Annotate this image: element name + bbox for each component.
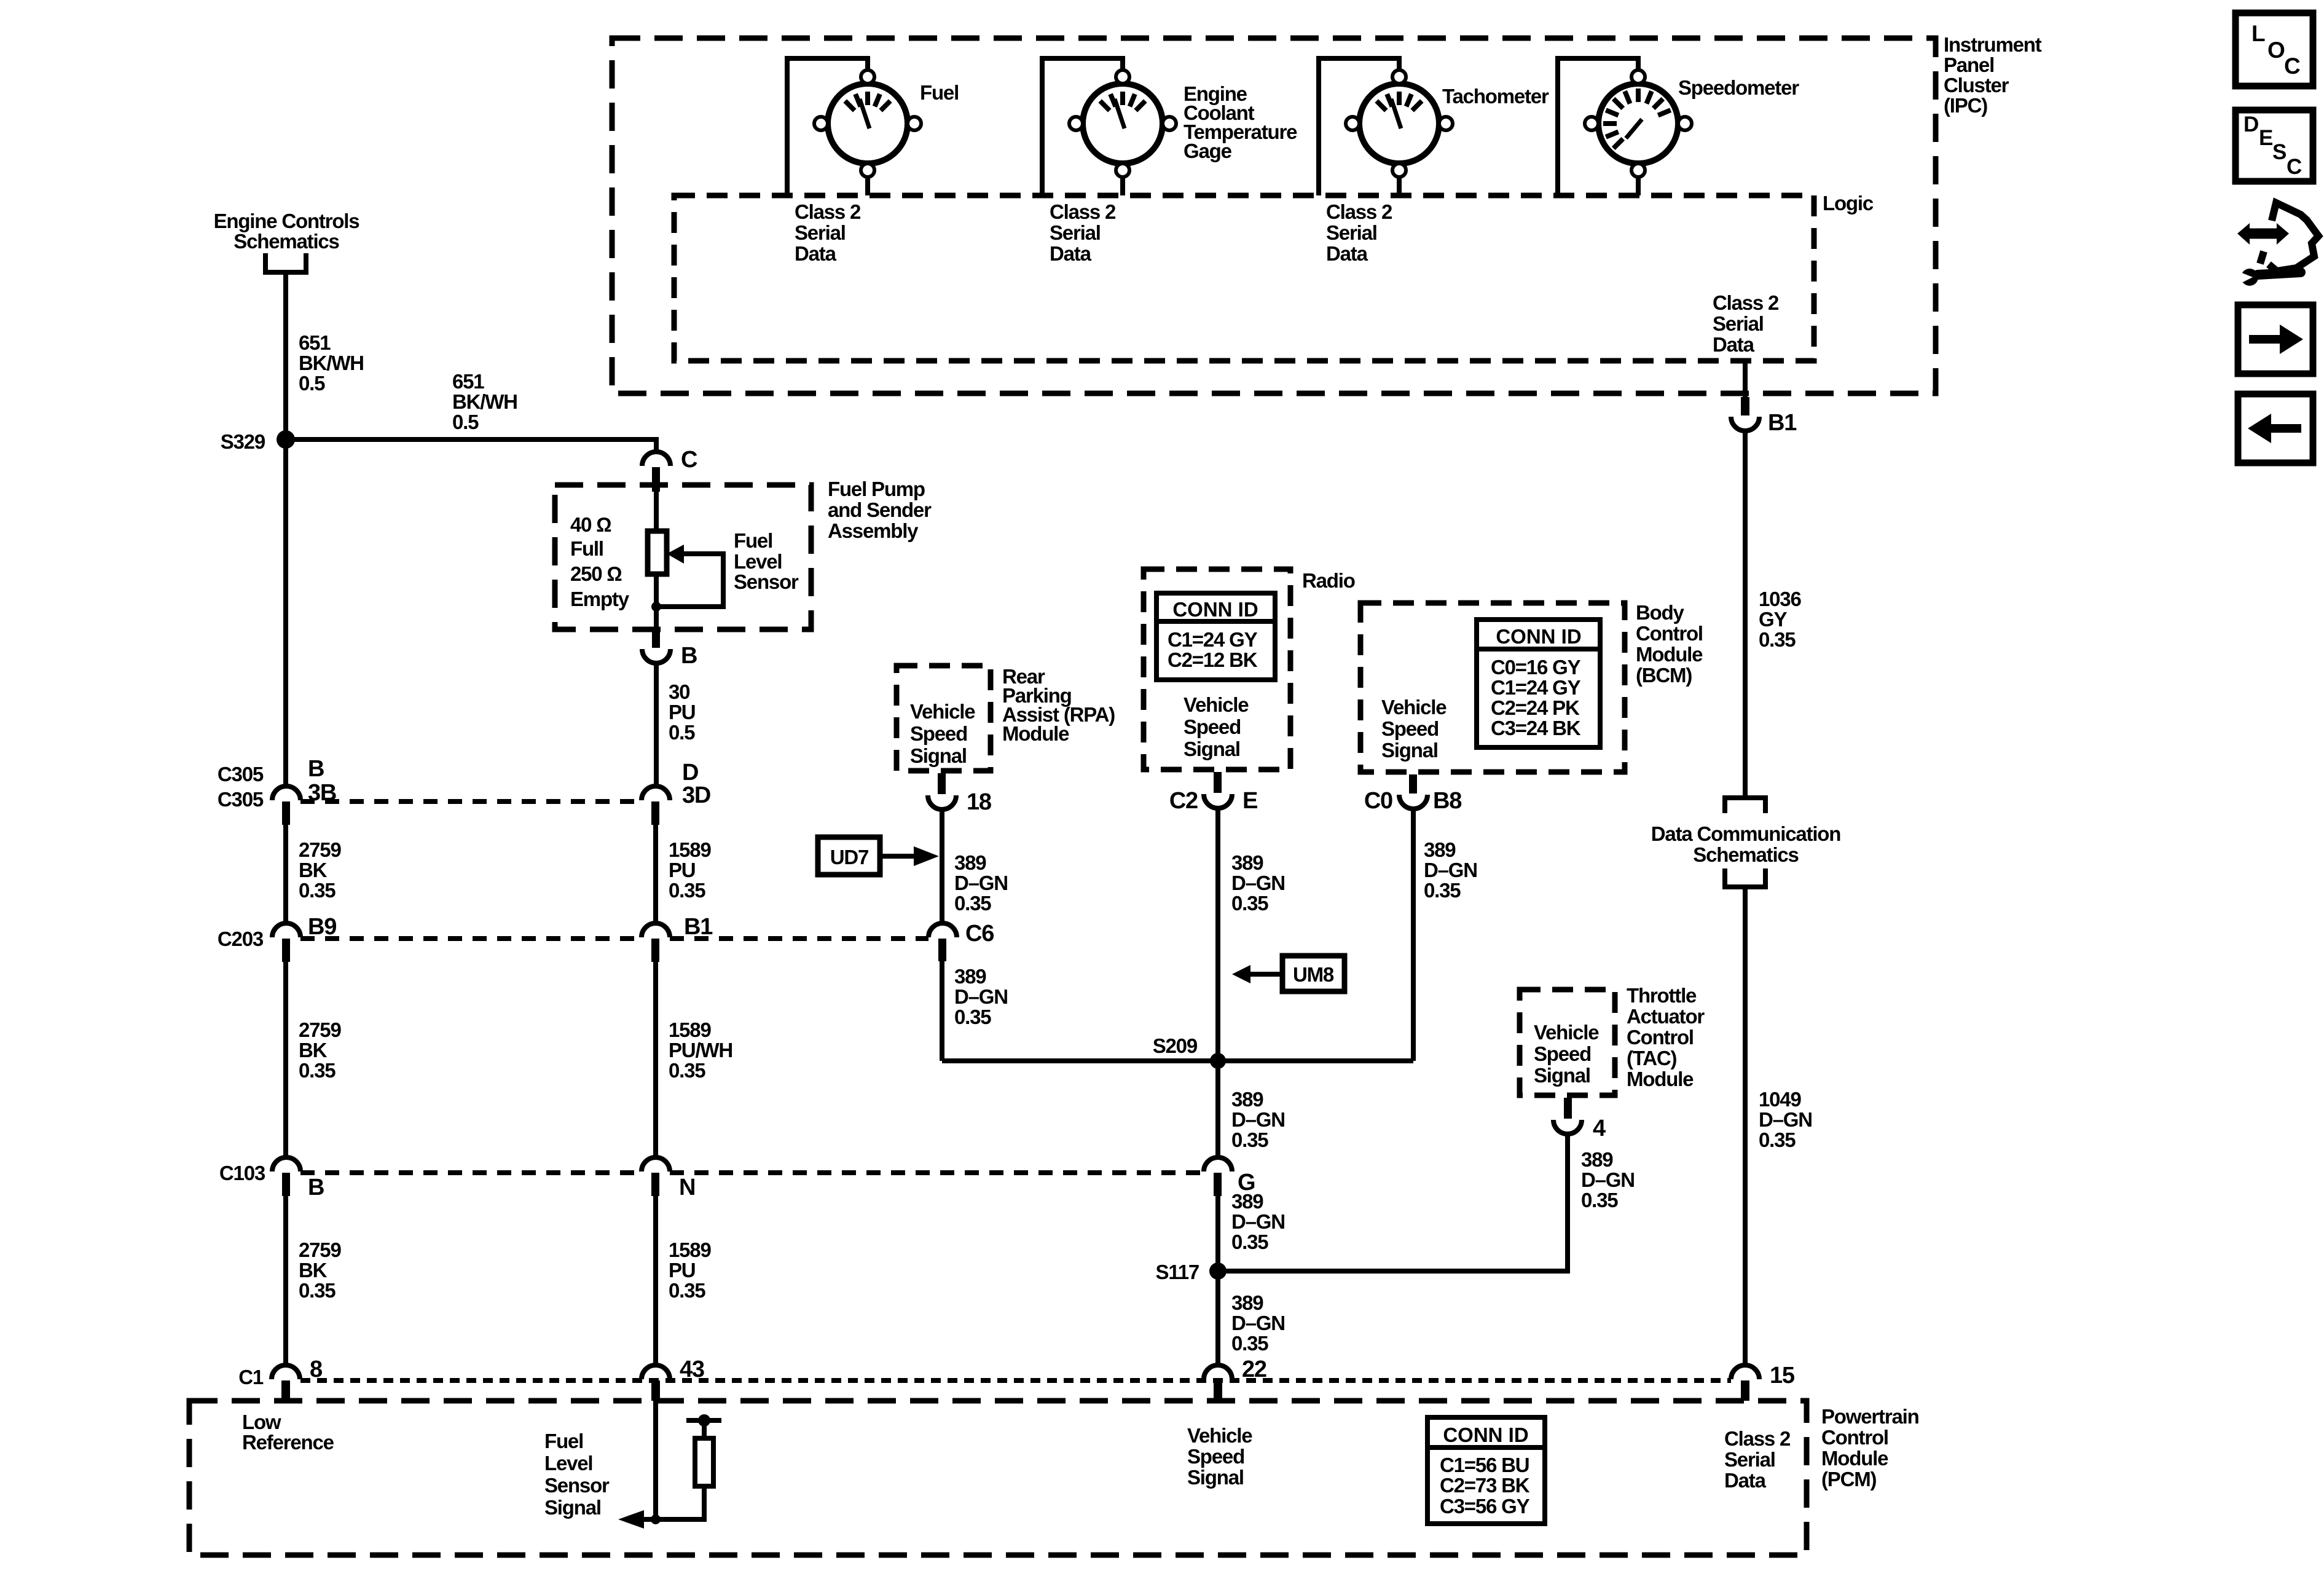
svg-text:1589: 1589 — [669, 1238, 711, 1261]
svg-text:Level: Level — [544, 1452, 592, 1475]
wire 30 PU from connector B to C305 — [654, 662, 659, 787]
svg-text:C2=73 BK: C2=73 BK — [1440, 1474, 1530, 1497]
svg-text:D–GN: D–GN — [954, 872, 1008, 894]
CONN ID table (PCM) — [1427, 1417, 1545, 1524]
svg-text:Low: Low — [242, 1411, 281, 1433]
svg-text:Control: Control — [1627, 1026, 1694, 1049]
resistor PCM internal (fuel level) — [695, 1438, 713, 1486]
off-page bracket Engine Controls Schematics — [265, 253, 306, 272]
Rear Parking Assist module dashed box — [897, 666, 991, 771]
wire tachometer bottom lead — [1397, 177, 1402, 195]
svg-text:Class 2: Class 2 — [1713, 291, 1779, 314]
connector PCM C1 pin 8 — [272, 1365, 300, 1379]
svg-text:Schematics: Schematics — [1693, 843, 1798, 866]
svg-text:C: C — [681, 447, 697, 473]
svg-text:389: 389 — [954, 965, 986, 988]
svg-text:Gage: Gage — [1184, 140, 1232, 162]
svg-text:D–GN: D–GN — [1759, 1108, 1812, 1131]
svg-text:C1=56 BU: C1=56 BU — [1440, 1454, 1529, 1476]
svg-text:Fuel Pump: Fuel Pump — [828, 478, 925, 500]
svg-text:0.35: 0.35 — [1231, 1332, 1268, 1355]
svg-text:651: 651 — [452, 370, 484, 393]
connector C103 pin B — [272, 1157, 300, 1171]
svg-text:Signal: Signal — [1187, 1466, 1244, 1489]
svg-text:D–GN: D–GN — [1231, 1108, 1285, 1131]
svg-text:389: 389 — [1231, 1190, 1263, 1213]
svg-text:Actuator: Actuator — [1627, 1005, 1705, 1028]
svg-text:Vehicle: Vehicle — [1184, 693, 1249, 716]
Radio dashed box — [1144, 569, 1290, 770]
svg-text:Tachometer: Tachometer — [1442, 85, 1549, 108]
arrow fuel level sensor signal — [618, 1510, 644, 1529]
wire fuel gauge bottom lead — [865, 177, 870, 195]
inline connector row C305 — [300, 799, 642, 804]
wire 1589 PU/WH from C203 to C103 — [653, 962, 658, 1159]
connector IPC pin B1 — [1741, 397, 1749, 415]
svg-text:Throttle: Throttle — [1627, 984, 1697, 1007]
svg-text:B8: B8 — [1433, 788, 1461, 814]
svg-text:Sensor: Sensor — [544, 1474, 610, 1497]
svg-text:Speed: Speed — [1534, 1042, 1591, 1065]
wire connector C to fuel level sensor resistor — [654, 492, 659, 531]
svg-text:0.35: 0.35 — [1581, 1189, 1618, 1211]
svg-text:4: 4 — [1593, 1116, 1606, 1141]
svg-text:2759: 2759 — [299, 838, 341, 861]
svg-text:651: 651 — [299, 331, 331, 354]
svg-text:CONN ID: CONN ID — [1172, 598, 1258, 621]
svg-text:1049: 1049 — [1759, 1088, 1801, 1111]
connector C103 pin N — [642, 1157, 670, 1171]
svg-text:0.35: 0.35 — [954, 1006, 991, 1028]
svg-text:Serial: Serial — [1713, 312, 1764, 335]
connector Radio C2 pin E — [1214, 772, 1222, 793]
wire Class 2 Serial Data from Logic box to B1 — [1743, 361, 1748, 397]
svg-text:Fuel: Fuel — [920, 81, 959, 104]
svg-text:1589: 1589 — [669, 1018, 711, 1041]
svg-text:S: S — [2272, 140, 2286, 164]
svg-text:43: 43 — [680, 1357, 704, 1382]
connector PCM C1 pin 15 — [1731, 1365, 1759, 1379]
svg-text:Serial: Serial — [1050, 221, 1101, 244]
wire 1036 GY from B1 to Data Communication reference — [1743, 430, 1748, 797]
svg-text:C2: C2 — [1169, 788, 1198, 814]
svg-text:C2=24 PK: C2=24 PK — [1491, 696, 1580, 719]
svg-text:C: C — [2287, 155, 2302, 179]
svg-text:PU: PU — [669, 859, 695, 881]
svg-text:D–GN: D–GN — [1231, 872, 1285, 894]
wire 389 D-GN from S117 to PCM 22 — [1215, 1271, 1220, 1366]
CONN ID table (Radio) — [1156, 593, 1275, 680]
wire speedometer bottom lead — [1636, 177, 1641, 195]
svg-text:15: 15 — [1770, 1363, 1795, 1388]
svg-text:389: 389 — [1231, 1088, 1263, 1111]
reference box UM8 — [1282, 956, 1345, 991]
svg-text:0.35: 0.35 — [669, 1059, 705, 1082]
svg-text:D: D — [682, 760, 698, 786]
wire 389 D-GN from RPA 18 to C6 — [940, 808, 944, 924]
svg-text:0.35: 0.35 — [1759, 628, 1796, 651]
svg-text:D–GN: D–GN — [1581, 1168, 1635, 1191]
wire 2759 BK from C203 to C103 — [283, 962, 288, 1159]
splice S209 — [1210, 1053, 1226, 1069]
svg-text:389: 389 — [954, 851, 986, 874]
svg-text:UM8: UM8 — [1293, 963, 1334, 986]
svg-text:S329: S329 — [221, 430, 265, 453]
svg-text:BK/WH: BK/WH — [452, 390, 517, 413]
arrow UM8 to radio wire — [1249, 972, 1280, 977]
svg-text:389: 389 — [1581, 1148, 1613, 1171]
svg-text:B: B — [308, 756, 324, 782]
svg-text:BK/WH: BK/WH — [299, 352, 364, 374]
connector PCM C1 pin 22 — [1204, 1365, 1232, 1379]
svg-text:BK: BK — [299, 859, 328, 881]
icon box LOC — [2236, 13, 2313, 86]
svg-text:(BCM): (BCM) — [1636, 664, 1692, 687]
connector RPA pin 18 — [938, 773, 946, 794]
wire 389 D-GN from Radio E to S209 — [1215, 807, 1220, 1061]
svg-text:Data: Data — [795, 242, 837, 265]
connector C203 pin B9 — [272, 923, 300, 937]
wire 389 D-GN from BCM B8 to S209 — [1411, 808, 1416, 1061]
wire 389 D-GN from S209 to C103 G — [1215, 1061, 1220, 1158]
splice S329 — [277, 430, 295, 449]
internal pull-up T bar — [686, 1418, 721, 1423]
svg-text:D–GN: D–GN — [1231, 1312, 1285, 1334]
svg-text:0.5: 0.5 — [669, 721, 695, 744]
svg-text:389: 389 — [1231, 851, 1263, 874]
wire 651 BK/WH from Engine Controls Schematics to C305 — [283, 275, 288, 787]
svg-text:Instrument: Instrument — [1944, 33, 2042, 56]
svg-text:Data: Data — [1713, 333, 1755, 356]
svg-text:O: O — [2267, 37, 2285, 63]
svg-text:C0=16 GY: C0=16 GY — [1491, 656, 1581, 679]
svg-text:Control: Control — [1821, 1426, 1888, 1449]
inline connector row C103 — [300, 1170, 642, 1175]
svg-text:B: B — [681, 643, 697, 669]
svg-text:PU: PU — [669, 701, 695, 723]
svg-text:Data: Data — [1050, 242, 1092, 265]
svg-text:0.35: 0.35 — [1759, 1128, 1796, 1151]
IPC dashed box (Instrument Panel Cluster) — [612, 38, 1936, 393]
wire 1589 PU from C103 to PCM 43 — [653, 1196, 658, 1366]
svg-text:0.35: 0.35 — [1231, 1128, 1268, 1151]
svg-text:0.35: 0.35 — [1424, 879, 1461, 902]
wire 389 D-GN from G to S117 — [1215, 1196, 1220, 1271]
splice S117 — [1209, 1262, 1227, 1280]
Powertrain Control Module dashed box — [189, 1401, 1807, 1555]
svg-text:C3=24 BK: C3=24 BK — [1491, 717, 1581, 739]
icon box arrow left — [2238, 394, 2313, 463]
gauge Fuel — [814, 70, 921, 177]
connector C203 pin B1 — [642, 923, 670, 937]
svg-text:B1: B1 — [684, 914, 713, 940]
svg-text:N: N — [679, 1175, 695, 1200]
svg-text:Radio: Radio — [1302, 569, 1355, 592]
svg-text:2759: 2759 — [299, 1238, 341, 1261]
svg-text:1036: 1036 — [1759, 588, 1801, 610]
wire 1049 D-GN from Data Communication reference to PCM 15 — [1743, 887, 1748, 1366]
svg-text:C1=24 GY: C1=24 GY — [1491, 676, 1581, 699]
svg-text:Vehicle: Vehicle — [1534, 1021, 1599, 1044]
svg-text:Class 2: Class 2 — [795, 200, 861, 223]
svg-text:Reference: Reference — [242, 1431, 334, 1454]
svg-text:UD7: UD7 — [830, 846, 868, 868]
svg-text:0.35: 0.35 — [954, 892, 991, 915]
svg-text:C103: C103 — [219, 1162, 265, 1184]
svg-text:18: 18 — [967, 789, 991, 815]
CONN ID table (BCM) — [1477, 620, 1600, 747]
svg-text:Module: Module — [1821, 1447, 1888, 1470]
connector C (fuel pump and sender assembly) — [642, 452, 670, 466]
svg-text:Full: Full — [570, 537, 603, 560]
svg-text:Signal: Signal — [1184, 738, 1240, 760]
svg-text:0.5: 0.5 — [452, 411, 479, 433]
svg-text:1589: 1589 — [669, 838, 711, 861]
wire 651 BK/WH from S329 to connector C — [286, 439, 656, 454]
svg-text:C6: C6 — [965, 921, 994, 947]
svg-text:Logic: Logic — [1823, 192, 1874, 215]
svg-text:C: C — [2284, 53, 2300, 79]
node pull-up top — [698, 1414, 710, 1427]
svg-text:Powertrain: Powertrain — [1821, 1405, 1919, 1428]
svg-text:(TAC): (TAC) — [1627, 1047, 1677, 1069]
svg-text:Speed: Speed — [1184, 715, 1241, 738]
wire 1589 PU from C305 to C203 — [653, 825, 658, 924]
icon box DESC — [2236, 110, 2313, 181]
svg-text:Control: Control — [1636, 622, 1703, 645]
svg-text:E: E — [2259, 126, 2272, 150]
wire fuel gauge frame — [787, 58, 868, 195]
svg-text:Fuel: Fuel — [734, 529, 772, 552]
svg-text:Empty: Empty — [570, 588, 630, 610]
svg-text:Speed: Speed — [1187, 1445, 1244, 1468]
svg-text:250 Ω: 250 Ω — [570, 562, 622, 585]
svg-text:40 Ω: 40 Ω — [570, 513, 611, 536]
svg-text:Vehicle: Vehicle — [1187, 1424, 1252, 1447]
svg-text:PU: PU — [669, 1259, 695, 1282]
svg-text:C203: C203 — [218, 927, 264, 950]
off-page bracket lower (Data Communication Schematics) — [1725, 868, 1765, 887]
svg-text:Fuel: Fuel — [544, 1430, 583, 1452]
svg-text:389: 389 — [1424, 838, 1456, 861]
svg-text:C3=56 GY: C3=56 GY — [1440, 1495, 1530, 1518]
svg-text:C2=12 BK: C2=12 BK — [1168, 648, 1258, 671]
connector TAC pin 4 — [1564, 1098, 1572, 1119]
svg-text:Serial: Serial — [795, 221, 846, 244]
svg-text:Schematics: Schematics — [234, 230, 339, 253]
svg-text:Speedometer: Speedometer — [1678, 76, 1799, 99]
svg-text:Panel: Panel — [1944, 53, 1994, 76]
connector B (fuel pump and sender assembly) — [652, 627, 660, 648]
svg-text:0.35: 0.35 — [299, 1279, 336, 1302]
svg-text:Level: Level — [734, 550, 782, 573]
gauge Engine Coolant Temperature — [1069, 70, 1176, 177]
svg-text:PU/WH: PU/WH — [669, 1039, 732, 1061]
svg-text:BK: BK — [299, 1259, 328, 1282]
Fuel Pump and Sender Assembly dashed box — [555, 485, 811, 629]
Throttle Actuator Control module dashed box — [1520, 990, 1615, 1095]
svg-text:Class 2: Class 2 — [1050, 200, 1116, 223]
wire resistor to signal line — [644, 1486, 704, 1519]
svg-text:L: L — [2251, 21, 2265, 46]
svg-text:Class 2: Class 2 — [1326, 200, 1392, 223]
svg-text:Serial: Serial — [1326, 221, 1377, 244]
svg-text:Signal: Signal — [1381, 739, 1438, 762]
wire tachometer frame — [1319, 58, 1399, 195]
svg-text:S117: S117 — [1156, 1261, 1199, 1283]
svg-text:C305: C305 — [218, 788, 264, 811]
svg-text:Assembly: Assembly — [828, 519, 919, 542]
svg-text:Vehicle: Vehicle — [1381, 696, 1447, 719]
wire ECT gauge frame — [1042, 58, 1123, 195]
gauge Tachometer — [1346, 70, 1453, 177]
svg-text:Engine Controls: Engine Controls — [214, 210, 359, 232]
svg-text:D: D — [2244, 112, 2258, 136]
svg-text:Module: Module — [1636, 643, 1703, 666]
svg-text:Body: Body — [1636, 601, 1685, 624]
wire ECT gauge bottom lead — [1120, 177, 1125, 195]
wire from PCM 43 to fuel level sensor signal node — [653, 1401, 658, 1519]
svg-text:Serial: Serial — [1724, 1448, 1775, 1471]
svg-text:0.35: 0.35 — [299, 1059, 336, 1082]
svg-text:C1: C1 — [238, 1366, 264, 1388]
svg-text:S209: S209 — [1153, 1034, 1198, 1057]
svg-text:Vehicle: Vehicle — [910, 700, 975, 723]
inline connector row C1 (PCM) — [300, 1378, 1731, 1383]
svg-text:0.35: 0.35 — [669, 1279, 705, 1302]
svg-text:Cluster: Cluster — [1944, 74, 2009, 96]
svg-text:0.35: 0.35 — [299, 879, 336, 902]
svg-text:Speed: Speed — [910, 722, 967, 745]
svg-text:Sensor: Sensor — [734, 570, 799, 593]
svg-text:C0: C0 — [1364, 788, 1392, 814]
svg-text:8: 8 — [310, 1357, 322, 1382]
wiper arrow of fuel level sensor — [667, 545, 684, 564]
off-page bracket upper (Data Communication Schematics) — [1725, 798, 1765, 813]
svg-text:Module: Module — [1002, 722, 1069, 745]
svg-text:Signal: Signal — [910, 744, 967, 767]
svg-text:(IPC): (IPC) — [1944, 94, 1987, 117]
svg-text:D–GN: D–GN — [1424, 859, 1477, 881]
svg-text:D–GN: D–GN — [1231, 1210, 1285, 1233]
svg-text:0.5: 0.5 — [299, 372, 325, 395]
svg-text:B1: B1 — [1768, 410, 1797, 436]
svg-text:Module: Module — [1627, 1068, 1694, 1090]
svg-text:CONN ID: CONN ID — [1443, 1423, 1528, 1446]
icon harness repair (arrows and wrench) — [2234, 203, 2318, 286]
svg-text:Class 2: Class 2 — [1724, 1427, 1791, 1450]
svg-text:0.35: 0.35 — [1231, 1231, 1268, 1253]
Body Control Module dashed box — [1360, 603, 1625, 772]
connector PCM C1 pin 43 — [642, 1365, 670, 1379]
svg-text:Speed: Speed — [1381, 717, 1439, 740]
wire 2759 BK from C103 to PCM 8 — [283, 1196, 288, 1366]
svg-text:CONN ID: CONN ID — [1496, 625, 1581, 648]
svg-text:Signal: Signal — [544, 1496, 601, 1519]
reference box UD7 — [818, 837, 880, 875]
arrow UD7 to RPA wire — [882, 854, 916, 859]
svg-text:22: 22 — [1242, 1357, 1266, 1382]
svg-text:B9: B9 — [308, 914, 336, 940]
svg-text:E: E — [1242, 788, 1257, 814]
connector C103 pin G — [1204, 1157, 1232, 1171]
connector C305 pin B / 3B — [272, 786, 300, 800]
svg-text:3D: 3D — [682, 782, 710, 808]
node wiper junction — [651, 602, 661, 612]
wire 2759 BK from C305 to C203 — [283, 825, 288, 924]
connector C305 pin D / 3D — [642, 786, 670, 800]
connector BCM C0 pin B8 — [1409, 774, 1417, 793]
inline connector row C203 — [300, 936, 642, 941]
svg-text:and Sender: and Sender — [828, 498, 932, 521]
svg-text:C1=24 GY: C1=24 GY — [1168, 628, 1258, 651]
wire resistor to connector B — [654, 574, 659, 627]
svg-text:389: 389 — [1231, 1291, 1263, 1314]
connector C203 pin C6 — [928, 923, 957, 937]
svg-text:GY: GY — [1759, 608, 1787, 631]
svg-text:Data Communication: Data Communication — [1651, 822, 1840, 845]
svg-text:C305: C305 — [218, 763, 264, 786]
wire 389 D-GN from C6 to S209 — [940, 961, 944, 1061]
wire S209 horizontal — [942, 1058, 1413, 1063]
wire S117 to TAC module pin 4 — [1218, 1134, 1568, 1271]
svg-text:BK: BK — [299, 1039, 328, 1061]
svg-text:Signal: Signal — [1534, 1064, 1590, 1087]
Logic dashed box inside IPC — [674, 195, 1814, 361]
svg-text:Data: Data — [1326, 242, 1368, 265]
svg-text:(PCM): (PCM) — [1821, 1468, 1877, 1490]
svg-text:30: 30 — [669, 680, 689, 703]
wire T bar to resistor — [702, 1420, 707, 1438]
svg-text:Data: Data — [1724, 1469, 1767, 1492]
svg-text:D–GN: D–GN — [954, 985, 1008, 1008]
node junction on 43 wire — [651, 1514, 661, 1524]
svg-text:3B: 3B — [308, 780, 336, 806]
svg-text:0.35: 0.35 — [669, 879, 705, 902]
svg-text:0.35: 0.35 — [1231, 892, 1268, 915]
svg-text:2759: 2759 — [299, 1018, 341, 1041]
icon box arrow right — [2238, 305, 2313, 374]
svg-text:B: B — [308, 1175, 324, 1200]
wire speedometer frame — [1558, 58, 1638, 195]
resistor fuel level sensor element — [648, 531, 667, 574]
gauge Speedometer — [1585, 70, 1692, 177]
